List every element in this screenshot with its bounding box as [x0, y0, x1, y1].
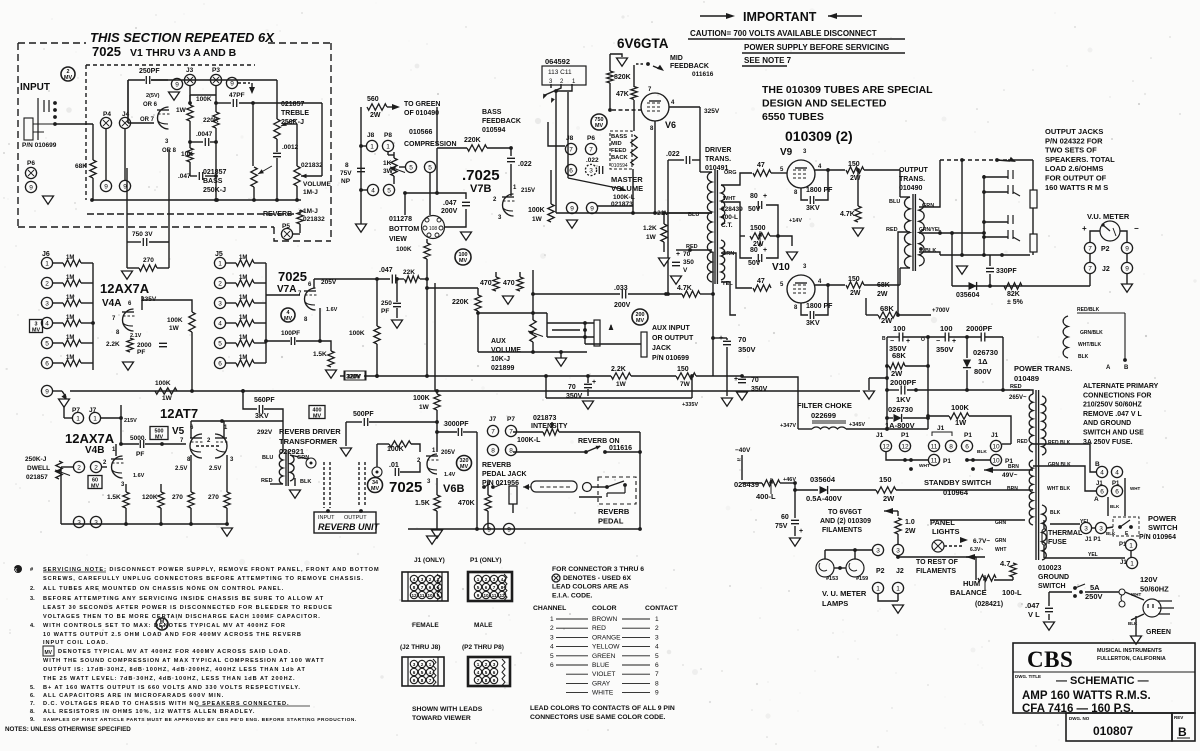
connector circle 3 fil a — [872, 544, 883, 555]
svg-text:MASTER: MASTER — [611, 175, 643, 184]
svg-text:028439: 028439 — [721, 206, 743, 213]
wire pedal bus — [408, 528, 640, 530]
wire 270a to bus — [190, 508, 192, 524]
connector circle 7 J8 — [565, 143, 576, 154]
wire x427 column — [426, 267, 428, 376]
svg-text:+347V: +347V — [780, 423, 796, 429]
dashed V6 grid wire — [612, 109, 642, 111]
underline caution 3 — [742, 65, 787, 67]
svg-text:8: 8 — [421, 678, 424, 683]
wire gnd stub ps — [869, 377, 887, 379]
ground arrow V4A cathode — [123, 362, 134, 370]
svg-text:+345V: +345V — [849, 422, 865, 428]
wire jack row 4 — [984, 236, 1008, 238]
junction 588 376 — [586, 374, 590, 378]
svg-text:MV: MV — [313, 413, 321, 419]
svg-text:1.5K: 1.5K — [107, 494, 121, 501]
svg-text:100-L: 100-L — [1002, 588, 1022, 597]
junction mid feedback — [646, 62, 650, 66]
svg-text:DWG. NO: DWG. NO — [1069, 716, 1090, 721]
wire pedal tip in — [592, 486, 607, 488]
junction 222 421 — [220, 419, 224, 423]
wire 1M to bus row 4 — [81, 322, 93, 324]
svg-text:WHT/BLK: WHT/BLK — [1078, 342, 1101, 348]
svg-text:P/N 024322 FOR: P/N 024322 FOR — [1045, 136, 1103, 145]
junction 633 213 — [631, 211, 635, 215]
svg-text:BLK: BLK — [1110, 504, 1120, 509]
svg-text:82K: 82K — [1007, 291, 1020, 298]
wire v9 8 down — [801, 188, 808, 200]
connector block J1 female — [402, 572, 448, 601]
potentiometer DWELL 250K — [56, 461, 62, 479]
wire 560 to arrow — [387, 106, 394, 108]
svg-text:1.6V: 1.6V — [133, 473, 145, 479]
svg-text:9: 9 — [493, 678, 496, 683]
connector circle 9 mid b — [586, 202, 597, 213]
junction J6 bus — [91, 321, 95, 325]
junction 533 294 — [531, 292, 535, 296]
svg-text:010023: 010023 — [1038, 565, 1061, 572]
connector circle 2 b — [90, 461, 101, 472]
wire 1M to bus row 3 — [81, 302, 93, 304]
svg-text:100K: 100K — [167, 317, 183, 324]
wire 100K down to node — [191, 332, 193, 391]
output jack contact row 3 — [1008, 215, 1013, 224]
wire circle to 1M row 2 — [53, 282, 63, 284]
resistor 100K V7B plate — [548, 204, 554, 222]
svg-text:BEFORE ATTEMPTING ANY SERVICIN: BEFORE ATTEMPTING ANY SERVICING INSIDE C… — [43, 596, 324, 602]
wire diode v top — [966, 337, 968, 358]
wire 1500 right — [770, 235, 778, 237]
wire 220k bottom — [477, 311, 479, 352]
wire gs left — [1049, 591, 1072, 593]
connector circle 11 J1 — [928, 440, 939, 451]
wire intensity row b — [559, 431, 640, 433]
capacitor 5000PF — [140, 440, 143, 448]
wire .01 right — [400, 462, 420, 472]
junction 828 285 — [826, 283, 830, 287]
capacitor 70 350V aux — [584, 384, 592, 387]
arrow rest fil — [966, 554, 975, 560]
svg-text:1: 1 — [550, 616, 554, 623]
junction 928 366 — [926, 364, 930, 368]
svg-text:8: 8 — [345, 162, 349, 169]
wire circle to 1M row 1 — [53, 262, 63, 264]
svg-text:2: 2 — [429, 577, 432, 582]
capacitor .022 V7B — [507, 158, 515, 161]
wire 9 9 b — [1126, 254, 1128, 262]
wire V5 cath a — [190, 455, 192, 492]
dashed reverb cable a2 — [329, 462, 331, 508]
diode 035604 output — [969, 282, 977, 290]
wire left ps vert — [741, 455, 743, 480]
resistor 100K V7B grid — [424, 243, 430, 259]
dashed wire mid feedback — [636, 63, 645, 65]
svg-text:2: 2 — [485, 662, 488, 667]
wire red driver — [690, 249, 712, 251]
svg-text:9: 9 — [507, 526, 511, 533]
svg-text:P7: P7 — [507, 416, 515, 423]
svg-text:OR 6: OR 6 — [143, 102, 158, 108]
underline caution 2 — [742, 52, 905, 54]
junction 855 550 — [853, 548, 857, 552]
wire 3000 right — [463, 431, 477, 433]
potentiometer TREBLE 250K — [274, 119, 280, 139]
vu lamp 2 — [846, 559, 864, 577]
power transformer secondary low coils — [1029, 460, 1033, 525]
resistor 120K bottom x161 — [158, 492, 164, 508]
svg-text:47K: 47K — [616, 91, 629, 98]
potentiometer 028439 400L — [762, 480, 780, 486]
connector circle 7 J7 mid — [487, 425, 498, 436]
resistor 1M J6 row 3 — [63, 300, 81, 306]
wire J3 column mid — [189, 121, 191, 148]
wire right rail 1003 — [1002, 337, 1004, 390]
wire circle to 1M J5 row 4 — [226, 322, 236, 324]
svg-text:3: 3 — [1099, 525, 1103, 532]
junction 928 418 — [926, 416, 930, 420]
wire diode left — [887, 417, 893, 419]
connector circle 3 mid dashed — [585, 164, 596, 175]
wire 047 down — [1048, 614, 1050, 620]
resistor 470K — [485, 495, 491, 511]
connector circle 1 lamp b — [892, 582, 903, 593]
svg-text:+: + — [763, 193, 767, 200]
reverb pedal jack tip circle — [583, 483, 592, 492]
svg-text:270: 270 — [143, 257, 154, 264]
svg-text:3: 3 — [655, 634, 659, 641]
svg-text:A: A — [1106, 365, 1111, 371]
svg-text:BRN: BRN — [1007, 486, 1018, 492]
wire 68kb left — [887, 365, 889, 367]
connector circle 8 b — [505, 444, 516, 455]
svg-text:100K: 100K — [155, 380, 171, 387]
svg-text:6: 6 — [1115, 488, 1119, 495]
junction jack row 1 — [982, 175, 986, 179]
svg-text:47PF: 47PF — [229, 92, 245, 99]
connector circle 3 a — [73, 516, 84, 527]
wire sec bot — [919, 252, 940, 255]
svg-text:2W: 2W — [850, 290, 861, 297]
connector circle 12 J1 — [880, 440, 891, 451]
junction 92 200 — [90, 198, 94, 202]
wire 560 right — [264, 409, 283, 424]
svg-text:3: 3 — [413, 662, 416, 667]
svg-text:INPUT COIL LOAD.: INPUT COIL LOAD. — [43, 640, 109, 646]
svg-text:AND (2) 010309: AND (2) 010309 — [820, 518, 871, 525]
wire caps row3 — [949, 336, 981, 338]
wire circle to 1M J5 row 6 — [226, 362, 236, 364]
junction bus 191 — [189, 522, 193, 526]
wire plate row 279 c — [420, 278, 427, 280]
svg-text:50V: 50V — [748, 260, 761, 267]
junction 1003 390 — [1001, 388, 1005, 392]
svg-text:010807: 010807 — [1093, 724, 1133, 738]
dashed box bottom notch — [274, 227, 331, 241]
svg-text:REV: REV — [1174, 715, 1183, 720]
wire caps row — [887, 336, 899, 338]
wiper hum — [984, 575, 986, 591]
svg-text:MV: MV — [32, 327, 40, 333]
wire blu to driver — [655, 212, 712, 214]
svg-text:100K: 100K — [413, 395, 430, 402]
svg-text:7: 7 — [655, 671, 659, 678]
capacitor 70 350V right — [738, 379, 746, 382]
svg-text:GRN/BLK: GRN/BLK — [1080, 330, 1103, 336]
svg-text:JACK: JACK — [652, 345, 671, 352]
svg-text:5: 5 — [655, 653, 659, 660]
wire 100K to 320V — [376, 344, 378, 376]
wire circle to 1M row 6 — [53, 362, 63, 364]
svg-text:49V~: 49V~ — [1002, 472, 1018, 479]
svg-text:5: 5 — [428, 164, 432, 171]
svg-text:5: 5 — [409, 164, 413, 171]
resistor 560 2W — [367, 104, 387, 110]
svg-text:250PF: 250PF — [139, 68, 160, 75]
wire aux jack row1 — [547, 322, 594, 324]
svg-text:4: 4 — [371, 187, 375, 194]
svg-text:SPEAKERS. TOTAL: SPEAKERS. TOTAL — [1045, 155, 1115, 164]
wire J5 bus to grid — [266, 294, 300, 296]
svg-text:CBS: CBS — [1027, 647, 1073, 672]
voltage box 320V b — [344, 371, 365, 380]
svg-text:1: 1 — [477, 577, 480, 582]
connector circle 7 P2 — [1084, 242, 1095, 253]
svg-text:560: 560 — [367, 96, 379, 103]
junction 533 313 — [531, 311, 535, 315]
junction 692 376 — [690, 374, 694, 378]
svg-text:NOTES: UNLESS OTHERWISE SPECIF: NOTES: UNLESS OTHERWISE SPECIFIED — [5, 726, 131, 733]
capacitor 3000PF — [458, 428, 461, 436]
svg-text:V4B: V4B — [85, 445, 104, 456]
svg-text:TO 6V6GT: TO 6V6GT — [828, 509, 862, 516]
tube V5 left half — [190, 434, 202, 458]
svg-text:BRN: BRN — [1008, 464, 1019, 470]
svg-text:3: 3 — [896, 547, 900, 554]
wire yel to bottom — [721, 282, 736, 315]
svg-text:VOLUME: VOLUME — [491, 347, 521, 354]
svg-text:MV: MV — [459, 258, 467, 264]
svg-text:ORANGE: ORANGE — [592, 634, 621, 641]
svg-text:J7: J7 — [489, 416, 497, 423]
svg-text:MV: MV — [460, 464, 468, 470]
wire tube to cap — [445, 209, 466, 227]
connector circle 1 lamp a — [872, 582, 883, 593]
resistor 100K 1W V6B plate — [434, 394, 440, 410]
bracket J1 b — [932, 432, 952, 436]
svg-text:CONNECTIONS FOR: CONNECTIONS FOR — [1083, 392, 1151, 399]
svg-text:1800 PF: 1800 PF — [806, 187, 833, 194]
junction 533 352 — [531, 350, 535, 354]
connector circle 9 J2 — [1121, 262, 1132, 273]
svg-text:6550 TUBES: 6550 TUBES — [762, 111, 824, 123]
svg-text:11: 11 — [931, 457, 938, 464]
connector block J2 female — [402, 657, 444, 686]
svg-text:LIGHTS: LIGHTS — [932, 527, 960, 536]
resistor 2.2K cathode — [127, 338, 133, 352]
svg-text:12: 12 — [901, 443, 909, 450]
svg-text:215V: 215V — [521, 188, 535, 194]
junction 253 103 — [251, 101, 255, 105]
resistor 220K treble — [213, 112, 219, 128]
wire jack row4 — [585, 343, 641, 345]
output transformer primary coil — [904, 197, 910, 268]
connector circle 11 P1 row2 — [928, 454, 939, 465]
svg-text:OF 010490: OF 010490 — [404, 110, 439, 117]
svg-text:BASS: BASS — [611, 134, 627, 140]
wire pin2 fan — [545, 84, 561, 95]
wire 250PF riser — [127, 80, 129, 123]
svg-text:2000PF: 2000PF — [966, 324, 993, 333]
svg-text:BLK: BLK — [977, 449, 987, 455]
ground arrow under J2 9 — [1122, 284, 1133, 292]
resistor 1.0 2W — [895, 518, 901, 534]
svg-text:DRIVER: DRIVER — [705, 147, 731, 154]
arrow panel — [960, 537, 968, 543]
wire bass pot column — [252, 103, 254, 166]
wire bottom bus v5 — [61, 523, 227, 525]
junction 511 148 — [509, 146, 513, 150]
resistor 68K — [90, 160, 96, 178]
wire 100K down — [426, 259, 428, 267]
wire yel to 3 — [1050, 523, 1080, 525]
svg-text:RED BLK: RED BLK — [1048, 440, 1071, 446]
wire caps right — [766, 205, 778, 258]
svg-text:BOTTOM: BOTTOM — [389, 226, 419, 233]
connector J6 circle 6 — [41, 357, 52, 368]
power switch dashed box — [1113, 517, 1139, 536]
ground arrow 047 200V — [461, 232, 472, 240]
wire red to transformer — [1003, 389, 1030, 391]
svg-text:2: 2 — [94, 464, 98, 471]
wire aux jack row2 — [552, 329, 580, 331]
svg-text:12: 12 — [411, 593, 417, 598]
inner dashed partition vertical — [85, 65, 87, 200]
ground arrow V5 bus — [222, 528, 233, 536]
connector circle 8 J1 — [945, 440, 956, 451]
treble pot wiper arrow — [281, 119, 296, 126]
svg-text:1M-J: 1M-J — [303, 189, 318, 196]
svg-text:68K: 68K — [877, 282, 890, 289]
wire screen stub — [713, 337, 727, 339]
junction 297 200 — [295, 198, 299, 202]
wire 1500 left — [740, 235, 745, 237]
svg-text:± 5%: ± 5% — [1007, 299, 1024, 306]
wire out prim top — [900, 196, 910, 198]
power switch contact a — [1118, 525, 1122, 529]
junction reverb in — [326, 509, 330, 513]
switch lever mid feedback — [657, 65, 664, 71]
wire aux gnd stem — [560, 352, 562, 358]
wire 250PF down to tube — [127, 80, 129, 123]
wire 1.2K top — [663, 213, 665, 224]
wire green stem — [1135, 616, 1137, 636]
junction jack row 2 — [982, 190, 986, 194]
connector J5 circle 4 — [214, 317, 225, 328]
DWG NO box — [1066, 713, 1172, 741]
connector J6 circle 1 — [41, 257, 52, 268]
svg-text:.022: .022 — [518, 161, 532, 168]
svg-text:YEL: YEL — [1088, 552, 1098, 558]
wire pot jog — [388, 154, 394, 156]
junction 984 233 — [982, 231, 986, 235]
svg-text:80: 80 — [750, 247, 758, 254]
wire 470k top — [487, 480, 489, 495]
svg-text:FEMALE: FEMALE — [412, 622, 439, 629]
wire grn to 47 v10 — [721, 253, 752, 288]
connector circle 9 under J4 — [119, 180, 130, 191]
wire 270 left lead — [127, 267, 139, 269]
junction 437 193 — [435, 191, 439, 195]
svg-text:−40V: −40V — [735, 447, 751, 454]
svg-text:7.: 7. — [30, 701, 35, 707]
arrow stem 47PF node — [251, 83, 253, 88]
svg-text:1: 1 — [655, 616, 659, 623]
connector circle 6 right b — [1111, 485, 1122, 496]
wire v6 cathode — [654, 121, 656, 213]
svg-text:70: 70 — [751, 377, 759, 384]
svg-text:MID: MID — [611, 141, 622, 147]
aux jack tip stem — [610, 325, 612, 330]
junction 405 193 — [403, 191, 407, 195]
wire 952 up — [951, 233, 953, 286]
svg-text:022699: 022699 — [811, 411, 836, 420]
connector circle 9 under P4 — [100, 180, 111, 191]
connector circle 1 J8 — [366, 140, 377, 151]
svg-text:9: 9 — [45, 388, 49, 395]
junction 190 142 — [188, 140, 192, 144]
junction j1 911 460 — [909, 458, 913, 462]
resistor 1M J6 row 6 — [63, 360, 81, 366]
connector circle 1 J7 — [89, 412, 100, 423]
wire 470a top — [495, 272, 497, 277]
dashed reverb cable b1 — [358, 462, 360, 505]
svg-text:THE 25 WATT LEVEL: 7dB·30HZ, 4: THE 25 WATT LEVEL: 7dB·30HZ, 4dB·100HZ, … — [43, 676, 295, 682]
svg-text:7: 7 — [421, 585, 424, 590]
svg-text:(028421): (028421) — [975, 601, 1003, 608]
svg-text:205V: 205V — [441, 450, 455, 456]
component box 113 C11 — [542, 66, 586, 85]
thermal fuse symbol — [1042, 529, 1047, 545]
svg-text:1W: 1W — [955, 418, 967, 427]
junction 668 294 — [666, 292, 670, 296]
wire 1M to bus J5 row 1 — [254, 262, 266, 264]
svg-text:220K: 220K — [464, 137, 481, 144]
wire treble bottom to .0012 — [276, 139, 278, 152]
ground arrow 70 350v v6 — [671, 276, 682, 284]
svg-text:SWITCH AND USE: SWITCH AND USE — [1083, 430, 1144, 437]
connector circle 5 comp a — [405, 161, 416, 172]
wire x700 to driver top — [700, 171, 712, 173]
junction 664 213 — [662, 211, 666, 215]
wire 795 down — [794, 483, 796, 505]
reverb on switch — [586, 446, 600, 452]
svg-text:J3: J3 — [186, 67, 194, 74]
wire cathode col 169 — [168, 150, 170, 242]
wire 1M to bus row 5 — [81, 342, 93, 344]
meter V.U. symbol — [1100, 221, 1120, 241]
svg-text:GROUND: GROUND — [1038, 574, 1069, 581]
svg-text:AMP 160 WATTS R.M.S.: AMP 160 WATTS R.M.S. — [1022, 690, 1151, 702]
dwell pot arrow — [55, 470, 70, 476]
slide pot element master volume — [631, 135, 637, 165]
svg-text:7025: 7025 — [278, 269, 307, 284]
svg-text:BROWN: BROWN — [592, 616, 618, 623]
wire 9 gnd — [1126, 274, 1128, 284]
svg-text:1.6V: 1.6V — [326, 307, 338, 313]
junction 984 255 — [982, 253, 986, 257]
svg-text:INTENSITY: INTENSITY — [531, 423, 568, 430]
